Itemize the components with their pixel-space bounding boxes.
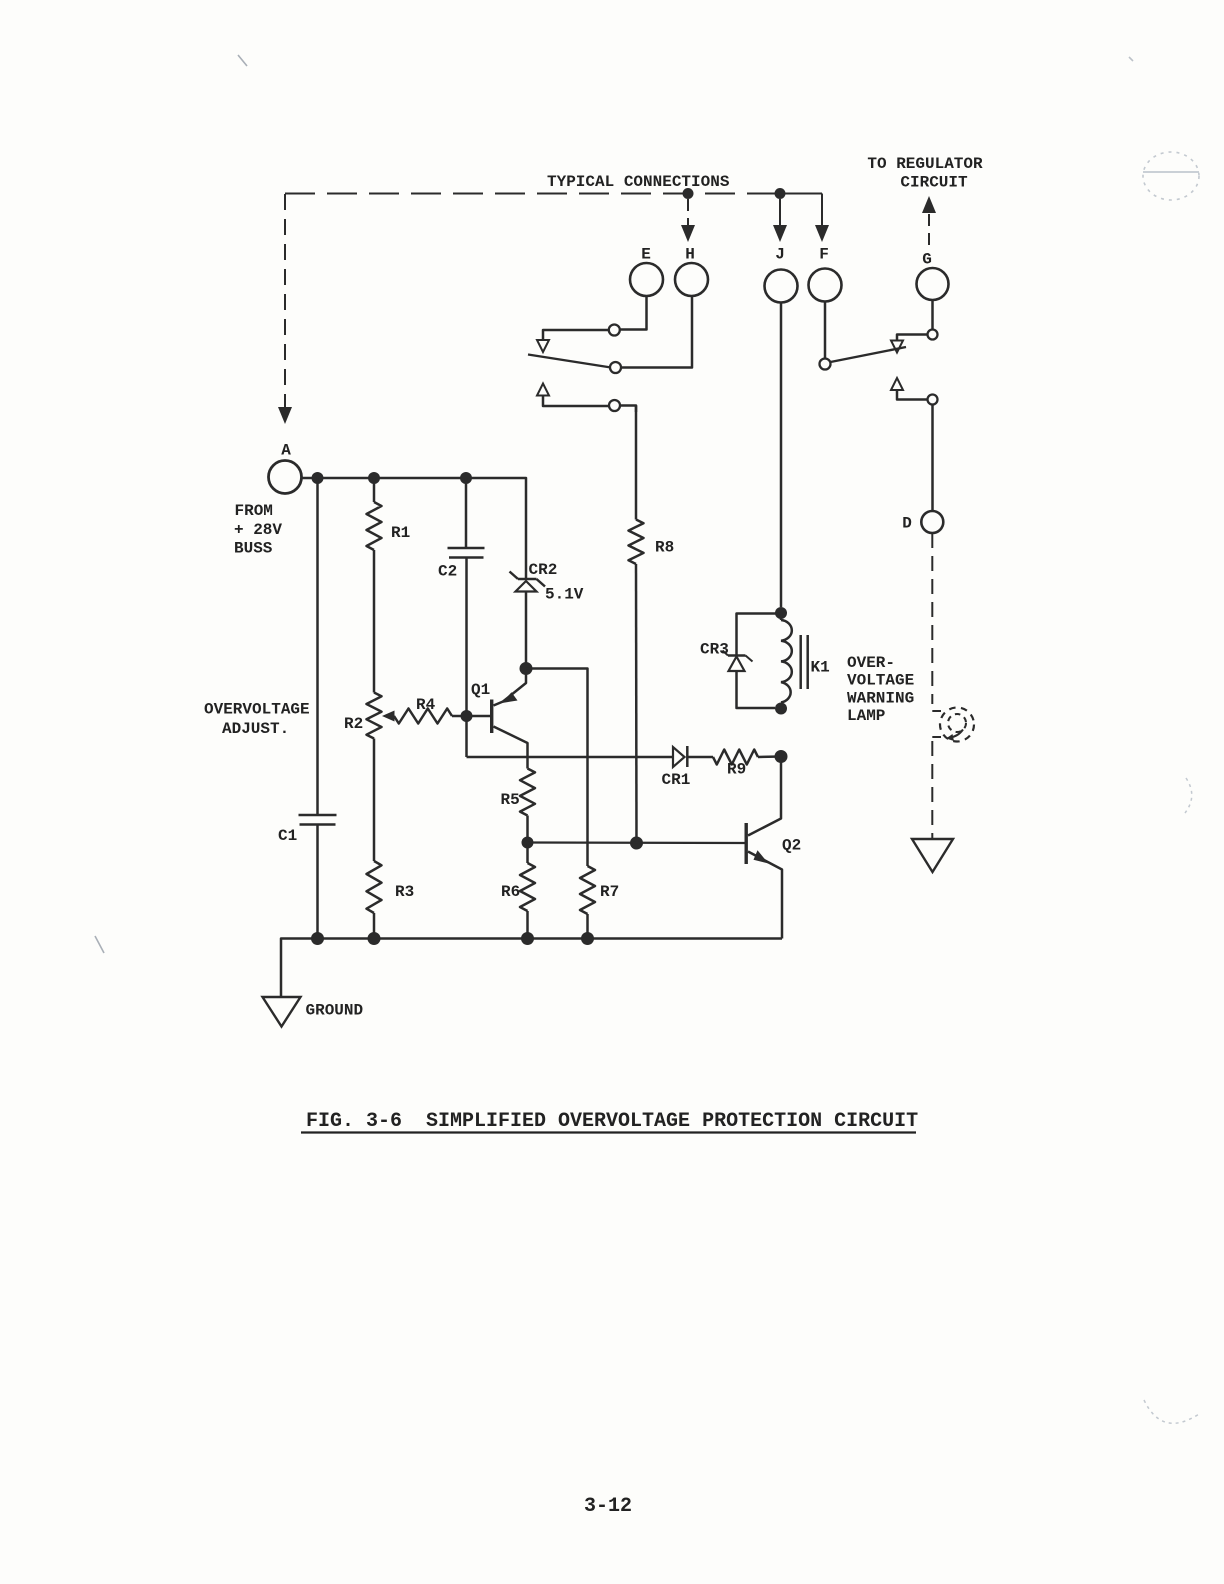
label R5	[501, 791, 520, 809]
pivot triangle lower-left switch	[537, 384, 549, 396]
svg-text:CR1: CR1	[662, 771, 691, 789]
wiper arrow into R2	[382, 711, 395, 722]
Q2 emitter arrow (NPN)	[754, 850, 769, 863]
label OVER-VOLTAGE WARNING LAMP	[847, 654, 914, 725]
wire dashed D to lamp	[931, 533, 933, 704]
node relay bottom junction	[775, 703, 787, 715]
transistor Q1 emitter wire	[503, 674, 526, 702]
wire R9 to collector node	[758, 755, 781, 758]
svg-text:FROM: FROM	[235, 502, 273, 520]
junction bus/C2	[460, 472, 472, 484]
svg-text:R9: R9	[727, 761, 746, 779]
label R1	[391, 524, 410, 542]
svg-text:VOLTAGE: VOLTAGE	[847, 672, 914, 690]
wire collector node to Q2	[748, 757, 781, 836]
wire from E to NC contact	[620, 297, 647, 330]
contact circle arm right	[820, 359, 831, 370]
svg-text:CR2: CR2	[529, 561, 558, 579]
label R6	[501, 883, 520, 901]
label E	[641, 246, 651, 264]
svg-text:Q1: Q1	[471, 681, 490, 699]
label K1	[811, 659, 830, 677]
svg-text:C2: C2	[438, 563, 457, 581]
terminal F	[809, 269, 842, 302]
svg-text:C1: C1	[278, 827, 297, 845]
node R8/Q2-base junction	[630, 837, 643, 850]
resistor R5	[520, 769, 535, 816]
wire lower pivot to D contact	[897, 390, 928, 400]
label R7	[600, 883, 619, 901]
svg-text:R3: R3	[395, 883, 414, 901]
svg-text:H: H	[685, 246, 695, 264]
node relay top junction	[775, 607, 787, 619]
wire R2 to R3	[373, 739, 376, 862]
wire dashed drop to H	[687, 199, 689, 227]
contact circle D side	[928, 395, 938, 405]
wire +28V bus	[302, 478, 527, 571]
label FROM +28V BUSS	[234, 502, 282, 558]
svg-text:FIG. 3-6 SIMPLIFIED OVERVOLTA: FIG. 3-6 SIMPLIFIED OVERVOLTAGE PROTECTI…	[306, 1110, 918, 1133]
wire C2 to base node and down	[465, 559, 468, 758]
svg-text:E: E	[641, 246, 651, 264]
wire solid segment J to F corner	[780, 193, 822, 195]
label Q2	[782, 837, 801, 855]
wire into coil	[780, 613, 783, 620]
label H	[685, 246, 695, 264]
svg-text:LAMP: LAMP	[847, 707, 885, 725]
svg-text:A: A	[281, 442, 291, 460]
wire node to R6	[526, 843, 529, 864]
relay coil K1	[781, 620, 792, 703]
svg-text:K1: K1	[811, 659, 830, 677]
svg-text:G: G	[922, 251, 932, 269]
wire dashed lamp to ground	[931, 741, 933, 839]
svg-text:R8: R8	[655, 539, 674, 557]
wire contact down to D	[931, 405, 934, 511]
wire dashed jog from lamp bottom	[932, 736, 941, 738]
label R8	[655, 539, 674, 557]
terminal A	[269, 461, 302, 494]
wire bus to C2	[465, 478, 468, 547]
node CR2/Q1-emitter junction	[520, 662, 533, 675]
svg-text:J: J	[775, 246, 785, 264]
contact circle arm left	[610, 362, 621, 373]
wire coil to bottom node	[780, 703, 783, 709]
arrow into J	[773, 225, 787, 242]
wire R7 to ground rail	[586, 914, 589, 939]
resistor R7	[580, 866, 595, 914]
node R5/R6/Q2-base junction	[522, 837, 534, 849]
terminal G	[917, 268, 949, 300]
label D	[902, 515, 912, 533]
wire R4 to Q1 base node	[452, 715, 467, 718]
zener diode CR2 5.1V	[510, 572, 546, 592]
diode CR1	[673, 746, 687, 767]
svg-text:CR3: CR3	[700, 641, 729, 659]
svg-text:R2: R2	[344, 715, 363, 733]
node Q1 base junction	[461, 710, 473, 722]
wire contact to R8 branch	[620, 406, 636, 413]
svg-text:R6: R6	[501, 883, 520, 901]
wire contact to pivot corner	[543, 330, 609, 340]
label TYPICAL CONNECTIONS	[547, 173, 730, 191]
label R2	[344, 715, 363, 733]
page number	[584, 1495, 632, 1518]
relay K1 core bars	[801, 635, 808, 689]
svg-text:TO REGULATOR: TO REGULATOR	[867, 155, 983, 173]
contact circle to R8	[609, 400, 620, 411]
wire CR2 to emitter node	[525, 592, 528, 669]
transistor Q1 collector wire	[494, 727, 528, 769]
wire R5 to divider node	[526, 816, 529, 843]
capacitor C1	[299, 815, 337, 825]
resistor R1	[367, 502, 382, 550]
label Q1	[471, 681, 490, 699]
wire lower pivot to NO contact	[543, 396, 609, 407]
wire drop to J	[779, 199, 781, 227]
svg-text:R4: R4	[416, 696, 436, 714]
wire dashed drop to terminal A	[284, 194, 286, 409]
junction on dashed bus above J	[775, 188, 786, 199]
arrow into A	[278, 407, 292, 424]
wire base row to Q2	[528, 841, 745, 844]
svg-text:5.1V: 5.1V	[545, 586, 584, 604]
wire base node to CR1	[467, 756, 674, 759]
wire arm contact to H	[621, 297, 692, 368]
wire CR3 to relay bottom	[737, 671, 776, 708]
transistor Q2 base bar	[745, 823, 748, 864]
label G	[922, 251, 932, 269]
wire R6 to ground rail	[526, 911, 529, 939]
capacitor C2	[448, 548, 485, 558]
label R9	[727, 761, 746, 779]
Q1 emitter arrow (PNP)	[502, 692, 518, 703]
svg-text:R5: R5	[501, 791, 520, 809]
wire bus corner to CR2	[525, 571, 528, 579]
potentiometer R2	[367, 693, 382, 739]
label OVERVOLTAGE ADJUST.	[204, 701, 310, 739]
label C2	[438, 563, 457, 581]
terminal E	[630, 263, 663, 296]
svg-text:WARNING: WARNING	[847, 689, 914, 707]
junction rail/R6	[521, 932, 534, 945]
svg-text:CIRCUIT: CIRCUIT	[900, 174, 968, 192]
terminal J	[765, 270, 798, 303]
junction rail/C1	[311, 932, 324, 945]
svg-text:3-12: 3-12	[584, 1495, 632, 1518]
wire dashed jog to lamp top	[932, 710, 941, 712]
svg-text:R7: R7	[600, 883, 619, 901]
svg-text:OVER-: OVER-	[847, 654, 895, 672]
node R9/K1/Q2-collector junction	[775, 750, 788, 763]
arrow up to regulator circuit	[922, 196, 936, 213]
overvoltage warning lamp DS1 (dashed)	[940, 708, 974, 742]
label GROUND	[306, 1002, 364, 1020]
wire CR1 to R9	[687, 756, 713, 759]
wire R3 to ground rail	[373, 913, 376, 939]
svg-text:GROUND: GROUND	[306, 1002, 364, 1020]
junction rail/R7	[581, 932, 594, 945]
pivot triangle upper-right switch	[891, 341, 903, 353]
svg-text:D: D	[902, 515, 912, 533]
arrow into H	[681, 225, 695, 242]
switch arm left	[528, 355, 611, 368]
diode CR3	[723, 651, 753, 672]
label TO REGULATOR CIRCUIT	[867, 155, 983, 192]
resistor R9	[713, 750, 758, 765]
label F	[819, 246, 829, 264]
resistor R4	[394, 709, 452, 724]
junction bus/R1	[368, 472, 380, 484]
label CR1	[662, 771, 691, 789]
wire C1 to ground rail	[316, 826, 319, 939]
svg-text:TYPICAL CONNECTIONS: TYPICAL CONNECTIONS	[547, 173, 730, 191]
wire J to relay	[780, 303, 783, 608]
ground (left, open)	[263, 997, 301, 1027]
wire R1 to R2	[373, 550, 376, 693]
figure title	[301, 1110, 918, 1133]
pivot triangle lower-right switch	[891, 378, 903, 390]
switch arm right	[831, 347, 907, 362]
junction bus/C1	[312, 472, 324, 484]
wire drop to F	[821, 194, 823, 228]
label R3	[395, 883, 414, 901]
wire from F to arm contact	[824, 302, 827, 359]
wire ground rail	[281, 939, 782, 998]
svg-text:OVERVOLTAGE: OVERVOLTAGE	[204, 701, 310, 719]
contact circle G side	[928, 330, 938, 340]
wire G to contact	[931, 300, 934, 329]
ground (right, open)	[912, 839, 953, 872]
pivot triangle upper-left switch	[537, 340, 549, 352]
label CR2	[529, 561, 558, 579]
svg-text:BUSS: BUSS	[234, 540, 273, 558]
label A	[281, 442, 291, 460]
wire relay top to CR3	[737, 614, 782, 655]
svg-text:ADJUST.: ADJUST.	[222, 720, 289, 738]
wire bus to C1	[316, 478, 319, 814]
wire bus to R1	[373, 478, 376, 502]
terminal H	[675, 263, 708, 296]
wire base node to Q1	[467, 715, 491, 718]
label J	[775, 246, 785, 264]
wire dashed typical-connections bus	[285, 193, 822, 195]
wire pivot to G contact	[897, 335, 928, 341]
svg-text:F: F	[819, 246, 829, 264]
wire switch to R8	[635, 406, 638, 520]
label R4	[416, 696, 436, 714]
terminal D	[921, 511, 943, 533]
label C1	[278, 827, 297, 845]
contact circle E side	[609, 325, 620, 336]
resistor R3	[367, 861, 382, 913]
resistor R6	[520, 863, 535, 911]
svg-text:R1: R1	[391, 524, 410, 542]
transistor Q2 emitter wire	[748, 852, 782, 939]
label 5.1V	[545, 586, 584, 604]
label CR3	[700, 641, 729, 659]
transistor Q1 base bar	[490, 700, 493, 734]
resistor R8	[629, 520, 644, 565]
svg-text:Q2: Q2	[782, 837, 801, 855]
wire dashed from G to regulator arrow	[928, 214, 930, 252]
svg-text:+ 28V: + 28V	[234, 521, 282, 539]
junction rail/R3	[368, 932, 381, 945]
wire R8 to base row	[635, 564, 638, 843]
arrow into F	[815, 225, 829, 242]
wire emitter to base bar	[494, 702, 504, 706]
junction on dashed bus above H	[683, 188, 694, 199]
wire emitter node to R7	[526, 669, 588, 867]
